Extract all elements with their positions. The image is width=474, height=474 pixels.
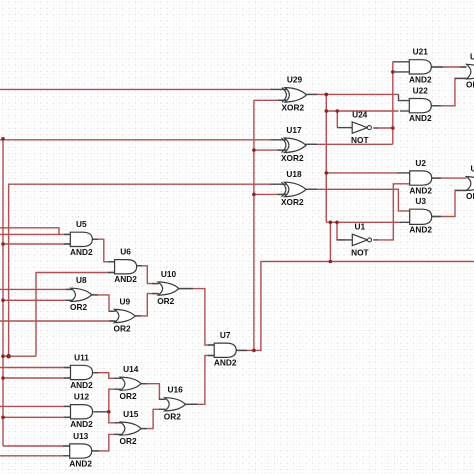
pin stubs U13 xyxy=(63,446,99,456)
svg-text:AND2: AND2 xyxy=(70,380,93,390)
pin stubs U29 xyxy=(271,89,317,100)
junction U29 out branch xyxy=(325,93,329,97)
svg-text:U5: U5 xyxy=(76,219,87,229)
pin stubs U16 xyxy=(159,399,197,409)
wire U7 output to far right xyxy=(236,262,474,351)
wire U21 bottom stub xyxy=(393,71,410,73)
svg-text:OR2: OR2 xyxy=(120,391,137,401)
svg-text:U2: U2 xyxy=(415,158,426,168)
junction U3 bottom net a xyxy=(329,221,333,225)
junction U11 bottom xyxy=(1,376,5,380)
wire U6 bottom feeder vertical D xyxy=(36,273,115,357)
AND2 gate U21 xyxy=(409,47,432,85)
svg-text:U29: U29 xyxy=(287,74,303,84)
wire U29 output xyxy=(307,93,399,95)
svg-text:U18: U18 xyxy=(286,169,302,179)
svg-text:U24: U24 xyxy=(352,109,368,119)
svg-text:OR: OR xyxy=(466,80,474,90)
pin stubs U2 xyxy=(398,173,442,178)
NOT gate U1 xyxy=(351,222,371,258)
svg-text:U12: U12 xyxy=(74,392,90,402)
wire U5 upper feeder xyxy=(0,228,59,235)
svg-text:XOR2: XOR2 xyxy=(282,103,305,113)
svg-text:U17: U17 xyxy=(286,125,302,135)
pin stubs U7 xyxy=(208,345,247,356)
AND2 gate U12 xyxy=(70,392,93,430)
svg-text:AND2: AND2 xyxy=(214,358,237,368)
svg-text:U3: U3 xyxy=(415,196,426,206)
junction U8 bottom xyxy=(1,299,5,303)
AND2 gate U6 xyxy=(114,247,137,285)
wire U5 bottom input xyxy=(3,243,71,245)
junction y356 A xyxy=(1,354,5,358)
svg-text:U: U xyxy=(471,164,474,174)
wire U13 out to U15 bottom xyxy=(91,434,120,451)
svg-text:AND2: AND2 xyxy=(409,113,432,123)
svg-text:U2: U2 xyxy=(470,51,474,61)
svg-text:U1: U1 xyxy=(354,222,365,232)
wire branch to U2 top xyxy=(326,172,398,174)
pin stubs OR right mid xyxy=(455,189,467,191)
junction U17 feedback xyxy=(252,148,256,152)
OR2 gate partial middle right xyxy=(466,164,474,202)
wire U3 bottom net xyxy=(326,221,400,223)
wire U12 top input xyxy=(0,405,71,407)
svg-text:U14: U14 xyxy=(123,364,139,374)
AND2 gate U22 xyxy=(409,86,432,124)
wire U24 output net xyxy=(377,127,393,129)
svg-text:U6: U6 xyxy=(120,247,131,257)
svg-text:NOT: NOT xyxy=(351,247,369,257)
pin stubs U9 xyxy=(109,311,141,321)
wire cross-link at y356 xyxy=(3,355,36,357)
pin stubs U1 xyxy=(337,239,378,241)
svg-text:AND2: AND2 xyxy=(409,225,432,235)
pin stubs U21 xyxy=(431,66,467,68)
pin stubs U12 xyxy=(64,406,71,417)
OR2 gate U15 xyxy=(120,409,142,446)
svg-text:OR2: OR2 xyxy=(157,296,174,306)
svg-text:U15: U15 xyxy=(123,409,139,419)
wire U11 bottom input xyxy=(3,377,71,379)
OR2 gate U16 xyxy=(164,385,186,422)
wire input net 3 corner xyxy=(9,184,271,356)
svg-text:U8: U8 xyxy=(76,275,87,285)
wire U12 bottom input xyxy=(3,416,71,418)
pin stubs U10 xyxy=(152,284,193,294)
wire U6 out to U10 top xyxy=(136,266,158,284)
wire U17 output xyxy=(306,143,393,145)
junction y356 B FAT xyxy=(6,354,11,359)
AND2 gate U3 xyxy=(409,196,432,235)
pin stubs U14 xyxy=(115,378,148,389)
svg-text:AND2: AND2 xyxy=(70,247,93,257)
junction U18 feedback xyxy=(252,193,256,197)
wire U9 bottom input xyxy=(0,320,115,322)
wire U10 out to U7 top xyxy=(179,289,214,345)
svg-text:U7: U7 xyxy=(220,330,231,340)
wire feedback to U29 bottom input xyxy=(254,99,285,101)
svg-text:OR2: OR2 xyxy=(70,302,87,312)
wire U15 out to U16 bottom xyxy=(141,409,165,428)
wire U21 U22 vertical rail xyxy=(392,62,394,145)
wire input net 1 horizontal xyxy=(0,88,272,90)
junction U5 bottom xyxy=(1,242,5,246)
junction U21 bottom rail xyxy=(391,70,395,74)
junction U12 bottom xyxy=(1,416,5,420)
wire U2 output xyxy=(431,177,466,179)
junction U7 line link xyxy=(329,260,333,264)
junction U7 output xyxy=(252,349,256,353)
wire input net 2 horizontal xyxy=(0,139,271,141)
svg-text:U22: U22 xyxy=(413,86,429,96)
svg-text:OR2: OR2 xyxy=(114,323,131,333)
svg-text:XOR2: XOR2 xyxy=(281,153,304,163)
wire U29 out jog to U22 top xyxy=(399,94,410,100)
wire U21 top stub xyxy=(393,61,410,63)
svg-text:U13: U13 xyxy=(73,431,89,441)
svg-text:AND2: AND2 xyxy=(69,459,92,469)
pin stubs U22 xyxy=(400,106,441,111)
OR2 gate U8 xyxy=(70,275,92,312)
wire U16 out to U7 bottom xyxy=(185,356,214,405)
junction U24 output rail xyxy=(391,126,395,130)
pin stubs U17 xyxy=(271,140,318,150)
OR2 gate partial top right xyxy=(466,51,474,89)
wire U22 output to OR bottom xyxy=(431,78,467,105)
wire U13 bottom input xyxy=(0,455,70,457)
pin stubs U15 xyxy=(115,423,148,435)
wire branch to U24 input xyxy=(336,111,338,128)
svg-text:OR: OR xyxy=(466,191,474,201)
svg-text:XOR2: XOR2 xyxy=(281,197,304,207)
wire U8 out to U9 top xyxy=(92,295,115,311)
svg-text:NOT: NOT xyxy=(351,135,369,145)
pin stubs U11 xyxy=(64,368,98,379)
pin stubs U24 xyxy=(337,127,377,129)
pin stubs U18 xyxy=(271,184,318,194)
wire drop to U1 input xyxy=(337,222,346,240)
wire U11 top input xyxy=(0,367,71,369)
wire U21 output xyxy=(431,66,467,68)
AND2 gate U2 xyxy=(409,158,432,196)
XOR2 gate U18 xyxy=(281,169,306,207)
svg-text:AND2: AND2 xyxy=(114,274,137,284)
wire U5 out to U6 top xyxy=(92,239,115,262)
XOR2 gate U29 xyxy=(282,74,307,112)
OR2 gate U10 xyxy=(157,269,179,306)
wire vertical A left rail xyxy=(2,139,4,446)
wire feedback to U18 bottom input xyxy=(254,193,285,195)
svg-text:AND2: AND2 xyxy=(70,419,93,429)
wire U5 top input xyxy=(0,233,71,235)
wire U18 output to U3 top xyxy=(306,189,410,211)
wire branch to U22 bottom xyxy=(326,110,398,112)
wire center vertical U29 net xyxy=(325,94,327,222)
AND2 gate U11 xyxy=(70,352,93,390)
pin stubs U8 xyxy=(66,289,98,300)
junction node left rail top xyxy=(1,137,5,141)
svg-text:AND2: AND2 xyxy=(409,186,432,196)
OR2 gate U14 xyxy=(120,364,142,401)
wire U1 output to U2 bottom xyxy=(377,184,410,240)
wire U8 top input xyxy=(0,288,73,290)
junction U3 bottom net b xyxy=(335,221,339,225)
junction U22 bottom branch xyxy=(325,109,329,113)
svg-text:U11: U11 xyxy=(74,352,89,362)
wire U13 top input xyxy=(3,445,70,447)
pin stubs U6 xyxy=(108,262,142,273)
wire U8 bottom input xyxy=(3,299,73,301)
svg-text:U9: U9 xyxy=(119,296,130,306)
junction U24 input branch xyxy=(336,109,340,113)
wire U9 out to U10 bottom xyxy=(135,294,158,316)
wire U14 out to U16 top xyxy=(141,384,165,400)
wire U7 net feedback vertical xyxy=(253,100,255,350)
wire drop to U7 out line xyxy=(329,222,331,261)
wire U11 out to U14 top xyxy=(92,373,121,379)
XOR2 gate U17 xyxy=(281,125,306,163)
svg-text:U16: U16 xyxy=(167,385,183,395)
pin stubs U3 xyxy=(400,217,441,223)
svg-text:AND2: AND2 xyxy=(409,74,432,84)
OR2 gate U9 xyxy=(114,296,136,333)
AND2 gate U5 xyxy=(70,219,93,257)
svg-text:U10: U10 xyxy=(161,269,177,279)
wire U3 output to OR bottom xyxy=(431,190,466,216)
wire feedback to U17 bottom input xyxy=(254,149,285,151)
svg-text:OR2: OR2 xyxy=(164,412,181,422)
AND2 gate U7 xyxy=(214,330,237,368)
pin stubs U5 xyxy=(64,234,98,244)
junction U2 top branch xyxy=(325,171,329,175)
wire U12 out tee xyxy=(92,411,109,413)
NOT gate U24 xyxy=(351,109,371,145)
svg-text:OR2: OR2 xyxy=(120,436,137,446)
svg-text:U21: U21 xyxy=(413,47,429,57)
wire U12 net to U14 bottom xyxy=(109,389,121,423)
junction U12 output tee xyxy=(107,410,111,414)
AND2 gate U13 xyxy=(69,431,92,469)
pin stubs OR right top xyxy=(455,77,467,79)
